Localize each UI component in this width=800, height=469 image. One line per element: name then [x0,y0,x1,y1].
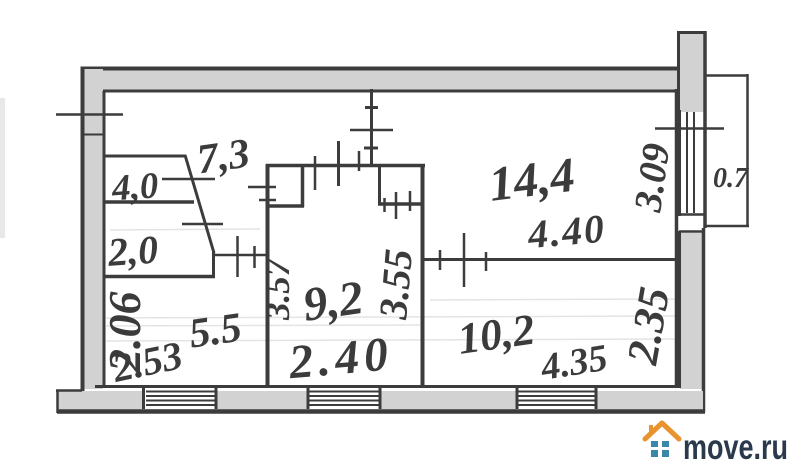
tick across right window [655,127,724,130]
bottom wall [56,387,705,414]
partition tick b [364,147,378,150]
vertical tick on top line 1 [314,156,317,190]
divider tick 2 [485,252,488,271]
svg-text:0.7: 0.7 [713,163,749,194]
dimension line at 2.0 door [214,254,267,257]
bottom window 3 [517,388,596,409]
tick across left wall [56,113,123,116]
right wall inner line [675,89,679,387]
svg-text:3.57: 3.57 [258,257,297,321]
left closet square [266,165,304,207]
svg-text:5.5: 5.5 [186,305,244,358]
bottom window 2 [308,388,380,409]
svg-text:2.40: 2.40 [286,327,395,389]
wall 9.2/10.2 [421,164,425,387]
9.2 structure top line [266,164,425,168]
balcony [705,74,749,227]
right wall window strip [679,110,705,232]
divider tick 1 [439,250,442,270]
faint scan smudge left edge [0,98,5,238]
svg-text:4.40: 4.40 [525,206,608,258]
partition cross line [350,129,393,132]
chimney column top-right [677,31,706,228]
right wall lower column [680,228,704,412]
svg-text:7,3: 7,3 [194,131,252,184]
right closet square [378,165,424,205]
top middle partition line [370,89,373,166]
partition tick a [365,106,378,109]
move.ru logo house roof [645,423,679,439]
short line in left wall [84,134,104,136]
vertical tick left [337,141,340,186]
svg-text:2,0: 2,0 [106,227,160,275]
logo chimney [649,425,653,432]
closet tick 1 [248,186,276,189]
dim tick short [253,246,256,268]
room 4.0 top line [104,155,186,158]
vertical tick on top line 2 [358,151,361,171]
logo windows [651,441,669,457]
room 2.0 right edge [212,252,215,277]
svg-text:9,2: 9,2 [300,271,367,332]
door diagonal [185,155,214,253]
left wall [83,67,105,392]
svg-text:3.55: 3.55 [370,247,421,322]
faint scan streaks [106,229,675,341]
room 2.0 bottom line [104,275,215,279]
wall 5.5/9.2 [266,164,270,387]
diagonal tick 1 [162,178,215,181]
diagonal tick 2 [182,223,223,226]
dim tick long [236,236,239,277]
svg-text:move.ru: move.ru [683,428,788,467]
svg-text:4,0: 4,0 [110,165,160,209]
divider 14.4/10.2 [421,258,675,261]
svg-text:14,4: 14,4 [486,147,578,212]
door hatch ticks [383,198,386,212]
top wall [81,69,690,92]
closet tick 2 [259,199,276,202]
bottom window 1 [143,388,216,409]
divider 4.0/2.0 [104,200,194,204]
divider tick long [463,233,466,287]
